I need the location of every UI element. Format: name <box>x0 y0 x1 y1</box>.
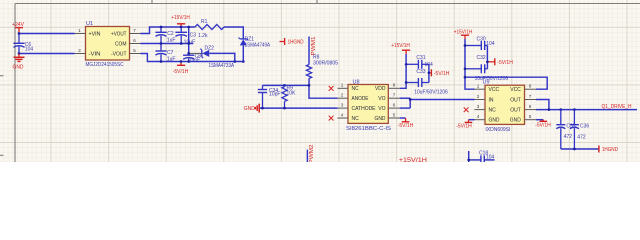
node +24V junction <box>18 32 21 35</box>
svg-text:5: 5 <box>393 112 396 117</box>
svg-text:104: 104 <box>25 46 34 52</box>
power port -5V/1H (U9 pin5) <box>535 120 551 129</box>
svg-text:IXDN609SI: IXDN609SI <box>485 127 510 133</box>
wire PWM1 input <box>308 37 310 65</box>
resistor R1 <box>195 19 224 39</box>
U9 pin 3 NC <box>464 104 496 114</box>
wire R1 to DZ1 <box>224 27 243 39</box>
svg-text:6: 6 <box>133 38 136 43</box>
U9 pin 2 IN <box>475 94 494 104</box>
wire U9 OUT pin7 elbow <box>536 100 549 110</box>
svg-text:GND: GND <box>244 106 255 112</box>
U9 pin 4 GND <box>475 114 500 124</box>
svg-text:1SMA4749A: 1SMA4749A <box>245 42 271 48</box>
power port -5V/1H (U9 caps) <box>487 58 513 66</box>
ground GND (1H side) <box>244 104 259 113</box>
U8 pin 1 NC <box>329 83 359 93</box>
capacitor C30 <box>465 36 495 50</box>
wire VO to U9 IN <box>410 99 474 101</box>
svg-text:7: 7 <box>393 93 396 98</box>
svg-text:8: 8 <box>529 84 532 89</box>
svg-text:VCC: VCC <box>489 87 500 93</box>
svg-text:C33: C33 <box>416 69 425 75</box>
svg-text:300R/0805: 300R/0805 <box>313 61 338 67</box>
svg-text:1HGND: 1HGND <box>288 40 304 46</box>
node DZ2 tap junction <box>187 52 190 55</box>
wire +VOUT elbow to +15V rail <box>141 27 196 34</box>
svg-text:-5V/1H: -5V/1H <box>173 69 189 75</box>
svg-text:DZ2: DZ2 <box>205 45 215 51</box>
svg-text:10K: 10K <box>287 90 297 96</box>
svg-text:5: 5 <box>133 48 136 53</box>
node anode rail junctions <box>308 84 311 87</box>
svg-text:1.2k: 1.2k <box>198 33 208 39</box>
node OUT rail junctions <box>548 108 551 111</box>
U1 pin 5 -VOUT <box>111 48 141 58</box>
svg-text:PWM1: PWM1 <box>311 36 317 55</box>
svg-text:OUT: OUT <box>510 108 521 114</box>
sheet border frame <box>0 0 640 162</box>
svg-text:SI8261BBC-C-IS: SI8261BBC-C-IS <box>346 126 392 132</box>
power port -5V/1H (left) <box>173 62 189 76</box>
svg-text:6: 6 <box>529 104 532 109</box>
U9 pin 5 GND <box>510 114 536 124</box>
svg-text:CATHODE: CATHODE <box>352 106 377 112</box>
svg-text:VO: VO <box>378 96 385 102</box>
U8 pin 6 VO <box>378 102 399 112</box>
ground GND (input) <box>13 54 25 71</box>
svg-text:GND: GND <box>489 118 500 124</box>
wire Q1_DRIVE_H rail <box>536 109 637 111</box>
svg-text:3: 3 <box>477 104 480 109</box>
svg-text:Q1_DRIVE_H: Q1_DRIVE_H <box>602 104 632 110</box>
svg-text:1HGND: 1HGND <box>602 147 618 153</box>
svg-text:104: 104 <box>486 155 495 161</box>
capacitor C2 <box>155 27 175 44</box>
wire PWM2 input (bottom) <box>306 150 308 162</box>
power port 1HGND (mid) <box>280 38 304 46</box>
power port -5V/1H (U9 pin4) <box>456 120 474 130</box>
wire COM rail <box>141 43 194 45</box>
svg-text:ANODE: ANODE <box>352 96 370 102</box>
svg-text:C3: C3 <box>190 33 197 39</box>
capacitor C35 <box>556 110 575 149</box>
svg-text:7: 7 <box>529 94 532 99</box>
svg-text:-VOUT: -VOUT <box>111 51 127 57</box>
svg-text:VDD: VDD <box>375 86 386 92</box>
wire C18 stub <box>468 151 470 162</box>
U8 pin 5 GND <box>375 112 400 122</box>
svg-text:-5V/1H: -5V/1H <box>497 60 513 66</box>
wire U8 VO pins tie <box>400 98 411 108</box>
svg-text:NC: NC <box>352 116 360 122</box>
power port +15V/1H (U8 side) <box>391 43 410 54</box>
svg-text:3: 3 <box>341 102 344 107</box>
svg-text:OUT: OUT <box>510 97 521 103</box>
svg-text:GND: GND <box>13 64 24 70</box>
node VO junction <box>409 98 412 101</box>
node row A junctions <box>160 26 163 29</box>
power port +15V/1H (U9 side) <box>454 30 473 39</box>
svg-text:472: 472 <box>577 135 586 141</box>
U8 pin 2 ANODE <box>338 93 370 103</box>
svg-text:-VIN: -VIN <box>89 51 101 57</box>
wire cathode/GND rail <box>259 107 337 109</box>
svg-text:U8: U8 <box>353 79 360 85</box>
svg-text:2: 2 <box>341 93 344 98</box>
U9 pin 1 VCC <box>475 84 500 94</box>
svg-text:COM: COM <box>115 41 127 47</box>
capacitor C18 <box>479 150 495 162</box>
U9 pin 7 OUT <box>510 94 536 104</box>
svg-text:C2: C2 <box>167 31 174 37</box>
svg-text:10nF: 10nF <box>189 57 200 63</box>
node COM junctions <box>160 42 163 45</box>
resistor R9 <box>282 85 296 108</box>
svg-text:C30: C30 <box>477 36 486 42</box>
svg-text:VO: VO <box>378 106 385 112</box>
node C6/GND junction <box>18 52 21 55</box>
svg-text:1: 1 <box>477 84 480 89</box>
node +15V vertical junctions <box>405 63 408 66</box>
svg-text:8: 8 <box>393 83 396 88</box>
capacitor C6 <box>13 34 33 54</box>
transistor-driver U9 (IXDN609 gate driver) <box>483 80 525 133</box>
svg-text:1uF: 1uF <box>167 56 176 62</box>
wire +24V to U1 pin1 <box>19 33 75 35</box>
power port +15V/1H (left) <box>171 15 190 27</box>
wire anode rail <box>263 84 310 86</box>
svg-text:7: 7 <box>133 28 136 33</box>
resistor R8 <box>306 55 338 79</box>
power port 1HGND (right) <box>599 146 618 154</box>
svg-text:2: 2 <box>78 48 81 53</box>
capacitor C31 <box>406 55 433 69</box>
power port -5V/1H (U8 caps) <box>429 69 450 77</box>
svg-text:-5V/1H: -5V/1H <box>434 71 450 77</box>
svg-text:PWM2: PWM2 <box>309 144 315 162</box>
svg-text:MGJ2D241505SC: MGJ2D241505SC <box>86 62 124 68</box>
node GND rail junctions <box>261 107 264 110</box>
power port -5V/1H (U8 GND pin) <box>398 118 414 129</box>
capacitor C36 <box>570 110 589 149</box>
svg-text:-5V/1H: -5V/1H <box>398 123 414 129</box>
op-amp U8 (gate-drive optocoupler SI8261) <box>346 79 392 131</box>
node bottom rail junction <box>573 148 576 151</box>
svg-text:GND: GND <box>375 116 386 122</box>
svg-text:4: 4 <box>477 114 480 119</box>
svg-text:1uF: 1uF <box>167 38 176 44</box>
zener DZ1 <box>239 36 271 61</box>
svg-text:1SMA4733A: 1SMA4733A <box>209 63 235 69</box>
U1 pin 6 COM <box>115 38 141 48</box>
svg-text:GND: GND <box>510 118 521 124</box>
svg-text:U9: U9 <box>483 80 490 86</box>
node C18 junction <box>467 159 470 162</box>
svg-text:6: 6 <box>393 102 396 107</box>
svg-text:IN: IN <box>489 97 494 103</box>
svg-text:U1: U1 <box>86 21 93 27</box>
wire COM to C8 vertical <box>188 27 190 55</box>
wire C30/C32 right vertical <box>486 46 488 69</box>
svg-text:+15V/1H: +15V/1H <box>399 158 427 162</box>
U1 pin 2 -VIN <box>75 48 101 58</box>
wire caps bottom rail <box>561 148 599 150</box>
U1 pin 7 +VOUT <box>111 28 141 38</box>
svg-text:-5V/1H: -5V/1H <box>456 124 472 130</box>
svg-text:NC: NC <box>352 86 360 92</box>
svg-text:10uF/50V/1206: 10uF/50V/1206 <box>414 89 448 95</box>
svg-text:C36: C36 <box>580 124 589 130</box>
wire +15V vertical to U9 VCC <box>465 39 475 89</box>
svg-text:-5V/1H: -5V/1H <box>535 123 551 129</box>
wire +15V vertical to U8 VDD <box>400 54 406 88</box>
svg-text:NC: NC <box>489 108 497 114</box>
node +15V U9 vertical junctions <box>464 44 467 47</box>
wire anode elbow to U8 pin2 <box>309 85 338 98</box>
wire C31/C33 right vertical <box>428 64 430 82</box>
capacitor C34 <box>258 85 281 108</box>
dcdc U1 box <box>86 21 130 68</box>
U1 pin 1 +VIN <box>75 28 101 38</box>
svg-text:R1: R1 <box>201 19 208 25</box>
wire U9 VCC pin8 loop <box>465 77 547 89</box>
svg-text:2: 2 <box>477 94 480 99</box>
major grid lines <box>0 0 640 162</box>
U8 pin 4 NC <box>329 112 359 122</box>
svg-text:5: 5 <box>529 114 532 119</box>
svg-text:+15V/1H: +15V/1H <box>391 43 410 49</box>
U8 pin 8 VDD <box>375 83 400 93</box>
svg-text:C32: C32 <box>477 55 486 61</box>
svg-text:1: 1 <box>78 28 81 33</box>
svg-text:VCC: VCC <box>510 87 521 93</box>
node -5V rail junctions <box>160 60 163 63</box>
U8 pin 7 VO <box>378 93 399 103</box>
capacitor C7 <box>155 44 175 63</box>
svg-text:+15V/1H: +15V/1H <box>171 15 190 21</box>
svg-text:10pF: 10pF <box>269 92 281 98</box>
U8 pin 3 CATHODE <box>338 102 377 112</box>
zener DZ2 <box>189 45 235 69</box>
svg-text:C31: C31 <box>416 55 425 61</box>
capacitor C3 <box>175 27 196 46</box>
capacitor C8 <box>183 54 201 64</box>
wire -VOUT elbow to -5V rail <box>141 54 244 62</box>
capacitor C32 <box>465 55 508 82</box>
power port +24V <box>12 22 24 34</box>
capacitor C33 <box>406 69 448 96</box>
svg-text:472: 472 <box>564 134 573 140</box>
svg-text:1: 1 <box>341 83 344 88</box>
wire GND row to U1 pin2 <box>19 53 75 55</box>
sheet background <box>0 0 640 162</box>
U9 pin 6 OUT <box>510 104 536 114</box>
svg-text:4: 4 <box>341 112 344 117</box>
U9 pin 8 VCC <box>510 84 536 94</box>
wire R8 to anode rail <box>308 79 310 86</box>
svg-text:+VIN: +VIN <box>89 31 101 37</box>
svg-text:C7: C7 <box>167 50 174 56</box>
svg-text:+VOUT: +VOUT <box>111 31 127 37</box>
